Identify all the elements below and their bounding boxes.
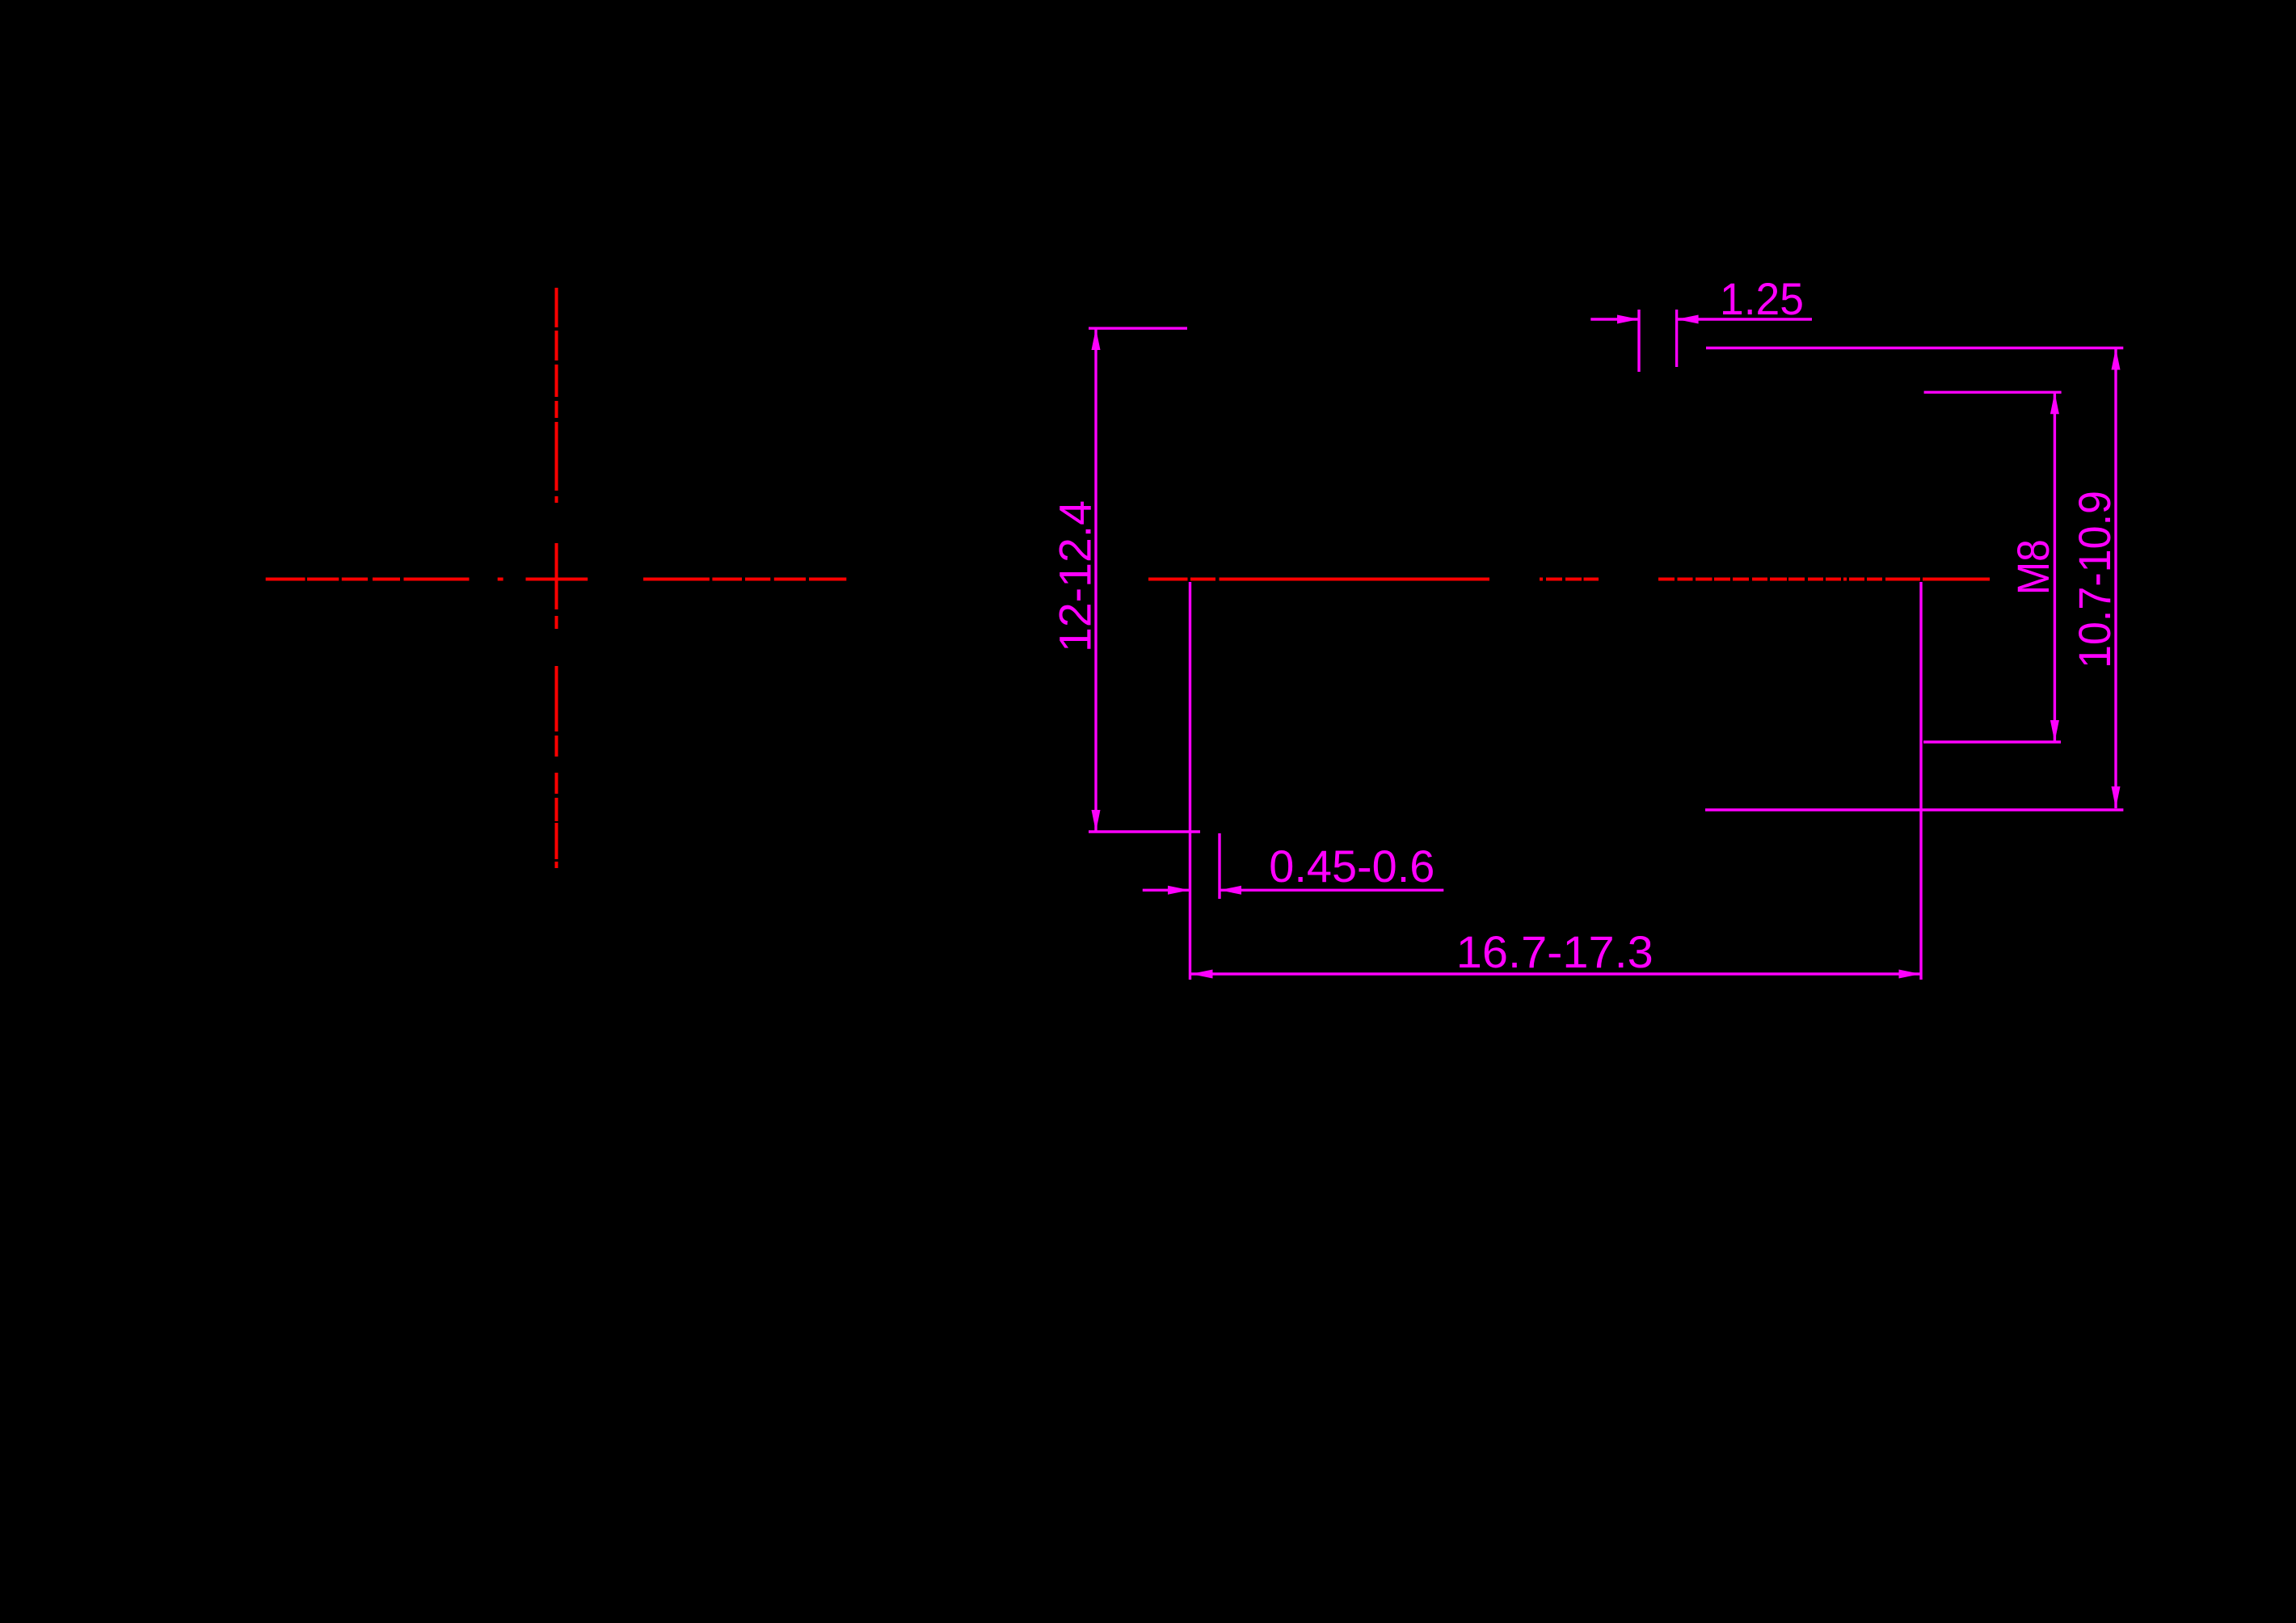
centerline left view vertical: [555, 288, 558, 868]
dimension 1.25 leader left segment: [1590, 318, 1639, 320]
dimension 10.7-10.9 arrow down: [2112, 786, 2121, 808]
dimension 0.45-0.6 left extension line (shared with 16.7-17.3): [1189, 582, 1191, 980]
dimension 1.25 leader right segment: [1677, 318, 1812, 320]
dimension 1.25 left extension line: [1637, 310, 1640, 372]
dimension 12-12.4 dimension line: [1094, 328, 1097, 832]
dimension 12-12.4 top extension line: [1089, 327, 1187, 330]
dimension 10.7-10.9 bottom extension line: [1705, 808, 2123, 811]
dimension 16.7-17.3 arrow right: [1899, 970, 1921, 979]
dimension 16.7-17.3 right extension line: [1919, 582, 1922, 980]
centerline right view horizontal: [1148, 578, 1990, 581]
svg-text:M8: M8: [2007, 539, 2058, 595]
dimension 12-12.4 bottom extension line: [1089, 830, 1200, 833]
svg-text:0.45-0.6: 0.45-0.6: [1269, 841, 1434, 892]
dimension M8 bottom extension line: [1923, 740, 2061, 743]
dimension 16.7-17.3 arrow left: [1191, 970, 1213, 979]
dimension M8 top extension line: [1924, 391, 2062, 394]
svg-text:12-12.4: 12-12.4: [1050, 500, 1101, 652]
svg-text:1.25: 1.25: [1720, 273, 1804, 324]
svg-text:10.7-10.9: 10.7-10.9: [2069, 491, 2120, 668]
svg-text:16.7-17.3: 16.7-17.3: [1456, 926, 1654, 977]
dimension 0.45-0.6 leader left segment: [1143, 889, 1190, 892]
dimension 16.7-17.3 dimension line: [1191, 972, 1921, 975]
dimension 10.7-10.9 dimension line: [2114, 348, 2117, 809]
dimension 0.45-0.6 leader right segment: [1220, 889, 1443, 892]
dimension M8 arrow up: [2050, 392, 2059, 414]
centerline left view horizontal: [266, 578, 847, 581]
dimension 1.25 right extension line: [1675, 310, 1678, 367]
dimension 10.7-10.9 arrow up: [2112, 348, 2121, 370]
dimension M8 arrow down: [2050, 720, 2059, 742]
dimension 1.25 arrow left: [1677, 315, 1699, 324]
dimension 12-12.4 arrow up: [1092, 328, 1101, 350]
dimension 1.25 arrow right: [1617, 315, 1639, 324]
dimension 0.45-0.6 right extension line: [1218, 833, 1220, 899]
dimension 0.45-0.6 arrow left: [1220, 886, 1241, 895]
dimension 0.45-0.6 arrow right: [1168, 886, 1190, 895]
dimension 12-12.4 arrow down: [1092, 810, 1101, 832]
dimension M8 dimension line: [2054, 392, 2056, 742]
dimension 10.7-10.9 top extension line: [1706, 347, 2123, 349]
